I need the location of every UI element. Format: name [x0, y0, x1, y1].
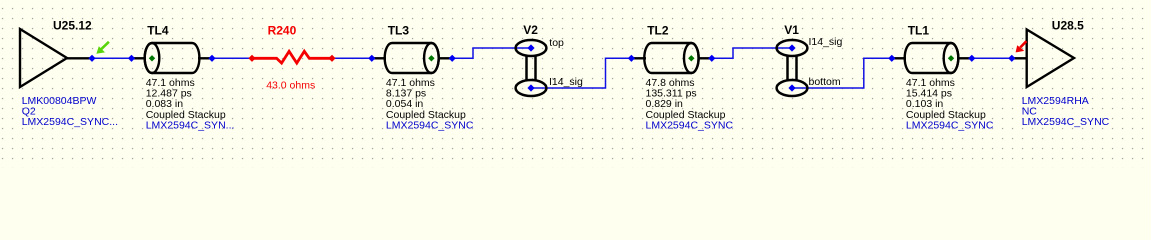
svg-text:TL4: TL4 — [147, 24, 169, 38]
via V1 — [777, 40, 808, 96]
wire TL1 to U28 node — [972, 57, 1012, 59]
transmission line TL3 — [385, 43, 439, 73]
transmission line TL4 — [145, 43, 200, 73]
svg-text:top: top — [549, 37, 564, 49]
svg-text:LMX2594C_SYNC: LMX2594C_SYNC — [386, 119, 474, 131]
wire stub U25 pin 12 output — [67, 57, 92, 59]
wire stub TL2 pin 1 — [631, 57, 646, 59]
svg-text:bottom: bottom — [809, 76, 841, 88]
svg-text:V2: V2 — [523, 23, 538, 37]
wire stub TL1 pin 2 — [958, 57, 972, 59]
wire V2.bottom to TL2 (with jog up) — [531, 58, 631, 88]
node V2 bottom pad — [527, 84, 534, 91]
node R240 pin 1 — [248, 55, 255, 62]
wire stub TL4 pin 2 — [198, 57, 212, 59]
node N4 (TL3 left pin) — [368, 55, 375, 62]
transmission line TL1 — [905, 43, 959, 73]
node V1 top pad — [788, 44, 795, 51]
svg-text:LMX2594C_SYNC...: LMX2594C_SYNC... — [22, 116, 118, 128]
wire R240 to TL3 — [332, 57, 372, 59]
node TL4 probe — [149, 55, 155, 61]
svg-text:TL3: TL3 — [388, 24, 410, 38]
node V1 bottom pad — [788, 84, 795, 91]
svg-text:U28.5: U28.5 — [1052, 18, 1084, 32]
node R240 pin 2 — [328, 55, 335, 62]
node N2 (TL4 left pin) — [128, 55, 135, 62]
via V2 — [516, 40, 547, 96]
probe arrow (green) at U25 output — [96, 42, 109, 54]
wire stub TL3 pin 2 — [438, 57, 452, 59]
wire stub U28 pin 5 input — [1012, 57, 1027, 59]
node N10 (U28 pin) — [1008, 55, 1015, 62]
node TL2 probe — [688, 55, 694, 61]
resistor R240 — [252, 51, 332, 63]
transmission line TL2 — [644, 43, 698, 73]
svg-text:R240: R240 — [268, 24, 297, 38]
wire stub TL3 pin 1 — [372, 57, 386, 59]
node TL1 probe — [948, 55, 954, 61]
node N6 (TL2 left pin) — [628, 55, 635, 62]
node N9 (TL1 right pin) — [968, 55, 975, 62]
wire U25 node to TL4 node — [92, 57, 132, 59]
node TL3 probe — [428, 55, 434, 61]
svg-text:U25.12: U25.12 — [53, 19, 92, 33]
wire V1.bottom to TL1 (with jog up) — [792, 58, 892, 88]
svg-text:LMX2594C_SYNC: LMX2594C_SYNC — [646, 119, 734, 131]
node N3 (TL4 right pin) — [208, 55, 215, 62]
node N1 (U25 pin) — [88, 55, 95, 62]
node N8 (TL1 left pin) — [888, 55, 895, 62]
svg-text:LMX2594C_SYNC: LMX2594C_SYNC — [906, 119, 994, 131]
wire stub TL4 pin 1 — [132, 57, 147, 59]
node N7 (TL2 right pin) — [708, 55, 715, 62]
wire stub TL2 pin 2 — [698, 57, 712, 59]
buffer U25.12 (driver IC pin) — [20, 29, 67, 87]
node V2 top pad — [527, 44, 534, 51]
node N5 (TL3 right pin) — [449, 55, 456, 62]
svg-text:LMX2594C_SYNC: LMX2594C_SYNC — [1022, 116, 1110, 128]
wire TL4 to R240 — [212, 57, 252, 59]
wire TL3 to V2.top (with jog up) — [452, 48, 531, 58]
svg-text:I14_sig: I14_sig — [809, 36, 843, 48]
probe arrow (red) at U28 input — [1016, 41, 1027, 52]
svg-text:43.0 ohms: 43.0 ohms — [266, 80, 315, 92]
svg-text:I14_sig: I14_sig — [549, 76, 583, 88]
buffer U28.5 (receiver IC pin) — [1027, 30, 1074, 88]
svg-text:LMX2594C_SYN...: LMX2594C_SYN... — [146, 119, 235, 131]
svg-text:TL1: TL1 — [908, 24, 930, 38]
wire stub TL1 pin 1 — [892, 57, 906, 59]
svg-text:V1: V1 — [784, 23, 799, 37]
wire TL2 to V1.top (with jog up) — [712, 48, 792, 58]
svg-text:TL2: TL2 — [647, 24, 669, 38]
